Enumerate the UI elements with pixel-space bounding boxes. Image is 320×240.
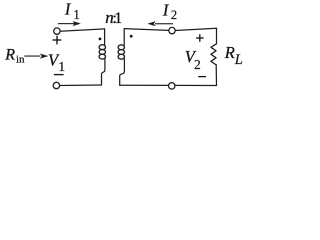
- svg-text:2: 2: [171, 8, 177, 22]
- terminal node top-left: [54, 28, 60, 34]
- svg-text:2: 2: [194, 57, 201, 72]
- wire top-right horizontal: [124, 28, 216, 30]
- current arrow I1: [58, 21, 80, 25]
- plus sign V2: [196, 34, 204, 42]
- wire bottom-left: [60, 84, 102, 87]
- inductor L1 loops (left winding): [99, 45, 105, 50]
- plus sign V1: [53, 36, 62, 45]
- svg-text:I: I: [64, 0, 72, 19]
- inductor L2 loops (right winding): [118, 45, 124, 50]
- minus sign V1: [54, 74, 64, 76]
- wire left coil top lead: [104, 29, 106, 45]
- wire right vertical bottom lead: [215, 65, 217, 86]
- svg-text:L: L: [234, 52, 243, 68]
- input arrow Rin: [24, 54, 48, 58]
- svg-text:R: R: [4, 47, 15, 64]
- polarity dot right winding: [130, 35, 133, 38]
- minus sign V2: [198, 76, 206, 78]
- terminal node bottom-right: [169, 83, 175, 89]
- svg-text:in: in: [16, 53, 25, 65]
- svg-text:I: I: [162, 1, 170, 20]
- terminal node bottom-left: [53, 82, 59, 88]
- wire top-left: [60, 29, 104, 31]
- polarity dot left winding: [99, 38, 102, 41]
- current arrow I2: [148, 22, 173, 26]
- wire right coil top lead: [123, 29, 125, 45]
- svg-text:1: 1: [73, 7, 80, 22]
- svg-text:1: 1: [114, 10, 122, 27]
- svg-text:R: R: [224, 43, 235, 62]
- svg-text:1: 1: [58, 59, 65, 74]
- wire right vertical top lead: [216, 28, 218, 44]
- wire bottom-right: [120, 84, 217, 86]
- terminal node top-right: [169, 27, 175, 33]
- wire left coil bottom lead: [102, 59, 105, 85]
- wire right coil bottom lead: [120, 59, 125, 85]
- resistor RL zigzag: [211, 44, 217, 65]
